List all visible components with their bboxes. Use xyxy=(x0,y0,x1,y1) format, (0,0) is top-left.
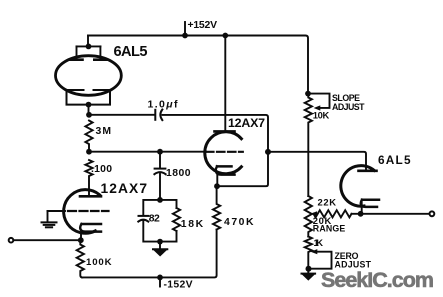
label R7 22K xyxy=(318,196,337,207)
label slope adjust xyxy=(332,93,365,112)
tube V4 cathode xyxy=(361,200,379,214)
label V3 12AX7 xyxy=(101,181,148,196)
resistor R9 18K xyxy=(173,208,180,231)
label V1 6AL5 xyxy=(114,44,148,60)
wire V2 plate lead xyxy=(224,36,226,132)
node grid bus junction xyxy=(86,149,92,155)
label -152V xyxy=(164,280,193,291)
label C1 1.0uf xyxy=(148,99,179,111)
svg-text:.100: .100 xyxy=(91,164,112,175)
label R2 100 xyxy=(91,164,112,175)
resistor R1 3M xyxy=(85,121,92,152)
node input junction xyxy=(78,237,84,243)
tube V3 12AX7 left envelope xyxy=(64,190,100,234)
tube V1 cathode box xyxy=(67,90,111,105)
wire grid to ground xyxy=(48,211,66,222)
node -152V supply tick xyxy=(157,275,163,287)
tube V1 right diode plate xyxy=(94,46,107,59)
terminal output xyxy=(430,211,435,216)
tube V3 grid xyxy=(68,210,109,212)
label R8 1K xyxy=(314,237,324,248)
wire C2 branch xyxy=(159,152,161,168)
wire -152V rail xyxy=(82,230,217,278)
label R5 10K xyxy=(313,109,330,120)
tube V1 6AL5 envelope xyxy=(56,56,122,96)
svg-text:3M: 3M xyxy=(96,126,112,137)
svg-text:+152V: +152V xyxy=(188,20,218,31)
node coupling junction xyxy=(86,112,92,118)
label R4 470K xyxy=(224,217,254,228)
tube V3 cathode xyxy=(80,224,101,240)
node box top junction xyxy=(157,197,163,203)
resistor R3 100K xyxy=(77,240,84,277)
tube V2 12AX7 middle envelope xyxy=(205,132,242,174)
svg-text:RANGE: RANGE xyxy=(313,223,346,233)
node output junction xyxy=(358,211,364,217)
resistor R7 22K xyxy=(314,210,352,217)
label R1 3M xyxy=(96,126,112,137)
tube V2 cathode xyxy=(216,166,235,186)
wire 22K to output xyxy=(352,213,430,215)
svg-text:1.0μf: 1.0μf xyxy=(148,99,179,111)
svg-text:1K: 1K xyxy=(314,237,324,248)
label +152V xyxy=(188,20,218,31)
wiper slope adjust bracket xyxy=(308,94,330,111)
label V2 12AX7 xyxy=(228,116,265,130)
node zero adjust bottom junction xyxy=(306,266,312,273)
ground middle xyxy=(153,249,167,256)
svg-text:SeekIC.com: SeekIC.com xyxy=(321,268,434,292)
tube V2 plate xyxy=(215,130,235,133)
tube V2 grid xyxy=(206,151,243,153)
capacitor C2 1800 xyxy=(154,169,165,200)
svg-text:470K: 470K xyxy=(224,217,254,228)
node C2 branch junction xyxy=(157,149,163,155)
tube V4 plate xyxy=(359,170,377,173)
node V1 cathode junction xyxy=(86,102,92,115)
resistor R2 100 xyxy=(85,160,92,196)
svg-text:1800: 1800 xyxy=(166,168,191,179)
svg-text:ADJUST: ADJUST xyxy=(332,102,365,112)
node V2 cathode junction xyxy=(214,183,220,189)
svg-text:10K: 10K xyxy=(313,109,330,120)
tube V1 anode connecting bar xyxy=(77,44,101,50)
node +152V supply tick xyxy=(182,22,188,38)
wiper zero adjust bracket xyxy=(310,249,332,269)
label C2 1800 xyxy=(166,168,191,179)
wire grid bus xyxy=(89,151,206,153)
terminal input xyxy=(9,238,14,243)
label R9 18K xyxy=(181,219,204,230)
tube V4 6AL5 right envelope xyxy=(341,166,374,207)
ground zero adjust xyxy=(302,274,316,281)
tube V1 left diode plate xyxy=(69,46,83,59)
node slope-adjust top junction xyxy=(305,91,311,97)
svg-text:6AL5: 6AL5 xyxy=(378,153,411,167)
label R3 100K xyxy=(86,257,112,268)
svg-text:18K: 18K xyxy=(181,219,204,230)
capacitor C1 1.0uf xyxy=(155,110,162,121)
svg-text:100K: 100K xyxy=(86,257,112,268)
resistor R4 470K xyxy=(213,186,220,229)
tube V3 plate xyxy=(80,195,101,198)
wiper 20K range arrow xyxy=(310,211,317,216)
label R6 20K range xyxy=(313,215,346,233)
svg-text:12AX7: 12AX7 xyxy=(101,181,148,196)
label watermark SeekIC.com xyxy=(321,268,434,292)
capacitor C3 82 and resistor R9 18K parallel box xyxy=(143,200,176,242)
resistor R5 10K slope adjust xyxy=(305,94,312,196)
wire junction to V4 plate xyxy=(268,152,366,171)
svg-text:6AL5: 6AL5 xyxy=(114,44,148,60)
node right vertical junction xyxy=(265,149,271,155)
wire coupling line to C1 xyxy=(89,114,154,116)
svg-text:82: 82 xyxy=(149,213,160,224)
label V4 6AL5 xyxy=(378,153,411,167)
resistor R6 20K range xyxy=(305,196,312,237)
node rail junction to V2 plate xyxy=(222,33,228,39)
svg-text:22K: 22K xyxy=(318,196,337,207)
resistor R8 1K zero adjust xyxy=(305,237,312,269)
ground left chassis xyxy=(42,222,57,227)
label C3 82 xyxy=(149,213,160,224)
wire 6AL5 V1 anode drop xyxy=(87,36,89,47)
svg-text:-152V: -152V xyxy=(164,280,193,291)
wire input lead xyxy=(14,239,81,241)
svg-text:12AX7: 12AX7 xyxy=(228,116,265,130)
capacitor C3 82 plates xyxy=(138,216,148,222)
wire C1 to right vertical xyxy=(163,115,269,186)
wire +152V top rail xyxy=(88,36,308,94)
node box bottom junction xyxy=(157,239,163,249)
label zero adjust xyxy=(335,251,372,270)
